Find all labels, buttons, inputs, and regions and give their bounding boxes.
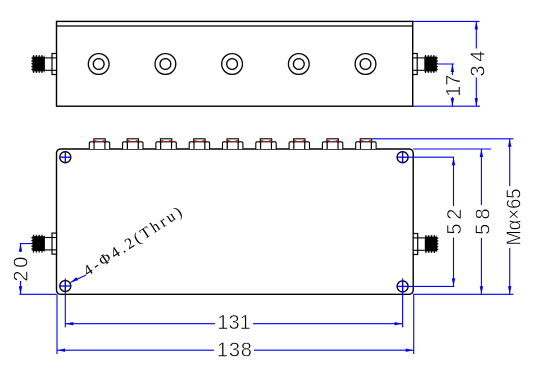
- dim 17 extension line from connector: [437, 63, 454, 65]
- tuning nut 5: [223, 139, 243, 149]
- corner hole BR: [396, 280, 408, 292]
- side view top extension line: [413, 20, 480, 22]
- tuning nut 6: [256, 139, 276, 149]
- dim line 138: [57, 349, 214, 351]
- corner hole BL: [59, 280, 71, 292]
- leader line to hole: [71, 275, 87, 282]
- side view body: [57, 21, 413, 106]
- svg-text:34: 34: [468, 51, 490, 77]
- cover screw 2: [155, 54, 176, 75]
- tuning nut 4: [189, 139, 209, 149]
- plan view right SMA connector: [413, 234, 437, 255]
- extension line below left edge: [56, 294, 58, 354]
- cover screw 5: [355, 54, 376, 75]
- extension line below BL hole: [64, 279, 66, 328]
- side view left SMA connector: [32, 54, 56, 75]
- plan top edge extension to 58: [413, 148, 491, 150]
- dim line 58: [480, 149, 482, 205]
- svg-text:17: 17: [443, 75, 465, 97]
- svg-text:138: 138: [217, 339, 252, 361]
- corner hole TR: [396, 151, 408, 163]
- svg-text:58: 58: [472, 208, 494, 235]
- dim line 131: [65, 323, 215, 325]
- cover screw 3: [222, 54, 243, 75]
- dim line 34: [475, 21, 477, 48]
- corner hole TL: [59, 151, 71, 163]
- BR hole extension to 52: [408, 285, 454, 287]
- extension line below right edge: [413, 294, 415, 354]
- svg-text:20: 20: [10, 257, 32, 282]
- plan view body: [57, 149, 414, 294]
- tuning nut 2: [123, 139, 143, 149]
- cover screw 4: [288, 54, 309, 75]
- extension line below BR hole: [402, 279, 404, 328]
- tuning nut 1: [89, 139, 109, 149]
- nut top extension to Ma x65: [372, 138, 514, 140]
- side view bottom extension line: [413, 105, 480, 107]
- svg-text:Mα×65: Mα×65: [504, 189, 526, 246]
- svg-text:52: 52: [444, 209, 466, 235]
- dim 20 top extension line: [20, 243, 32, 245]
- dim line 17: [451, 64, 453, 75]
- leader arrow: [70, 277, 78, 283]
- dim 20 bottom extension line: [19, 293, 56, 295]
- side view right SMA connector: [413, 54, 437, 75]
- dim line Ma x65: [509, 139, 511, 186]
- dim line 20: [20, 244, 22, 252]
- tuning nut 3: [156, 139, 176, 149]
- tuning nut 8: [322, 139, 342, 149]
- plan bottom edge extension right: [413, 293, 513, 295]
- TR hole extension to 52: [408, 156, 454, 158]
- tuning nut 7: [289, 139, 309, 149]
- svg-text:131: 131: [217, 312, 251, 334]
- cover screw 1: [88, 54, 109, 75]
- dim line 52: [453, 157, 455, 206]
- tuning nut 9: [356, 139, 376, 149]
- side view lid line: [57, 25, 413, 27]
- plan view left SMA connector: [32, 233, 56, 254]
